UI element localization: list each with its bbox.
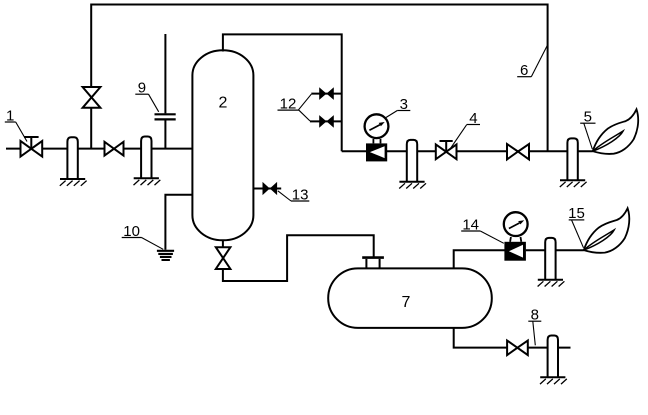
gauge of regulator 14: [504, 212, 528, 236]
wire top bypass line: [91, 5, 547, 152]
support S3: [399, 140, 426, 189]
support S6: [540, 336, 567, 385]
valve 12 lower: [319, 115, 334, 128]
valve on inlet line: [105, 142, 124, 156]
insulating joint 9: [155, 114, 176, 119]
wire vessel 7 bottom outlet: [454, 328, 571, 348]
flare 5: [593, 109, 638, 154]
support S5: [538, 238, 565, 287]
valve 4: [440, 141, 453, 152]
wire main inlet line: [6, 148, 193, 150]
vessel 2: [192, 50, 253, 240]
valve on bypass riser: [83, 87, 101, 108]
wire stub of valve 13: [253, 188, 281, 190]
wire vessel 7 top outlet: [454, 250, 584, 268]
gauge of regulator 3: [365, 114, 389, 138]
ground symbol 10: [157, 251, 174, 260]
nozzle flange of vessel 7: [362, 256, 384, 259]
valve 8: [507, 341, 528, 356]
regulator 14: [504, 242, 526, 261]
regulator 3: [366, 143, 387, 161]
support S1: [60, 137, 87, 186]
wire grounding line 10: [165, 195, 193, 250]
wire flare header line: [342, 150, 593, 152]
support S4: [560, 138, 587, 187]
support S2: [134, 137, 161, 186]
wire vessel 2 bottom drain: [223, 235, 374, 281]
svg-text:2: 2: [218, 95, 227, 112]
valve 13: [263, 182, 278, 195]
wire vent line 9: [164, 34, 166, 149]
valve 1: [24, 137, 38, 149]
flare 15: [584, 208, 629, 253]
svg-text:7: 7: [402, 294, 411, 311]
wire vessel 2 overhead line: [223, 34, 342, 151]
wire stub of valves 12: [310, 94, 342, 122]
vessel 7: [328, 268, 492, 328]
valve on vessel 2 drain: [216, 247, 231, 269]
valve on flare header: [507, 144, 529, 159]
valve 12 upper: [319, 87, 334, 100]
